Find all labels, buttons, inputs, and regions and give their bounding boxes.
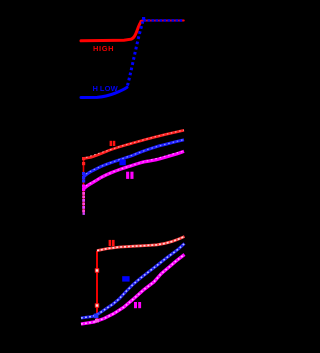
red curve HIGH: flat-left, sigmoid rise	[81, 21, 142, 41]
magenta relaxation curve	[84, 151, 185, 189]
magenta markers on line	[82, 185, 85, 188]
red markers on line	[82, 157, 85, 160]
label magenta p2	[126, 172, 129, 179]
salmon curve (top of panel 3)	[97, 237, 185, 251]
blue markers on line	[82, 172, 85, 175]
label magenta p3	[134, 302, 137, 308]
label red p3	[109, 240, 112, 246]
marker with white center upper	[95, 268, 99, 272]
blue steep rise dotted	[128, 22, 143, 86]
svg-text:HIGH: HIGH	[93, 44, 114, 53]
red plateau line	[141, 20, 184, 23]
pink marker bottom of line	[95, 319, 99, 323]
svg-text:H LOW: H LOW	[93, 84, 119, 93]
label red p2	[110, 141, 113, 146]
label blue p3	[122, 276, 129, 281]
magenta diagonal curve	[81, 255, 185, 325]
blue relaxation curve	[84, 140, 185, 177]
blue marker overshoot at plateau start	[142, 17, 145, 20]
blue marker cluster where blue crosses line	[94, 314, 99, 319]
red vertical line	[96, 251, 98, 319]
blue curve LOW: flat-left	[81, 87, 127, 97]
red relaxation curve	[84, 130, 185, 158]
vertical line	[83, 157, 85, 214]
label blue p2	[119, 160, 125, 165]
marker with white center lower	[95, 303, 99, 307]
blue markers on plateau	[144, 19, 184, 22]
blue diagonal curve	[81, 244, 185, 319]
pink lower markers on line	[82, 192, 85, 195]
